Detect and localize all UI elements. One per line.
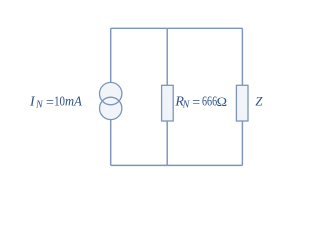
wire: left branch lower bbox=[110, 120, 112, 166]
label RN = 666ohm bbox=[174, 93, 227, 111]
label IN = 10mA bbox=[29, 93, 83, 111]
wire: middle branch upper bbox=[166, 28, 168, 85]
wire: left branch upper bbox=[110, 28, 112, 82]
svg-text:N: N bbox=[35, 100, 44, 111]
resistor RN box bbox=[162, 85, 174, 121]
wire: top left segment bbox=[111, 27, 168, 29]
impedance Z box bbox=[236, 85, 248, 121]
svg-text:Z: Z bbox=[255, 95, 263, 109]
svg-text:mA: mA bbox=[65, 93, 83, 109]
svg-text:Ω: Ω bbox=[217, 95, 228, 109]
wire: right branch upper bbox=[241, 28, 243, 85]
svg-text:N: N bbox=[182, 100, 191, 111]
wire: bottom left segment bbox=[111, 164, 168, 166]
current source IN (IEC symbol: two overlapping circles) bbox=[100, 82, 122, 119]
wire: bottom right segment bbox=[167, 164, 242, 166]
svg-text:=: = bbox=[192, 95, 200, 110]
label Z bbox=[255, 95, 263, 109]
wire: middle branch lower bbox=[166, 121, 168, 165]
svg-text:=: = bbox=[46, 95, 54, 110]
wire: top right segment bbox=[167, 27, 242, 29]
svg-text:666: 666 bbox=[202, 93, 217, 109]
svg-text:10: 10 bbox=[54, 93, 65, 109]
wire: right branch lower bbox=[241, 121, 243, 165]
